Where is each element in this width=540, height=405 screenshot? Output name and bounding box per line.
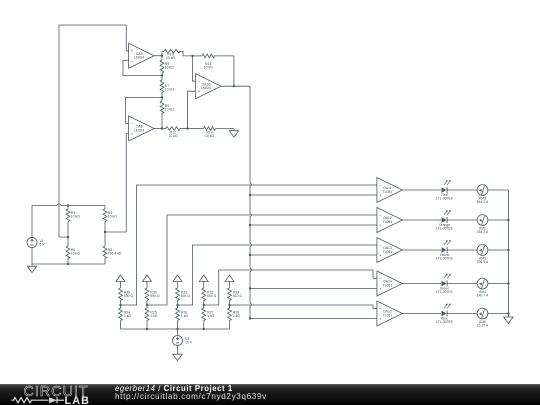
svg-text:5 V: 5 V — [40, 243, 46, 247]
svg-text:LTL-307EE: LTL-307EE — [436, 320, 454, 324]
svg-text:1 kΩ: 1 kΩ — [207, 314, 215, 318]
LED Green LTL-307EE — [442, 274, 451, 287]
op-amp OA10 — [196, 74, 222, 99]
label R4 — [108, 211, 117, 219]
label AM5 — [477, 320, 489, 328]
wire R11/R14 node to OA10 + input — [188, 91, 196, 128]
label R25 — [150, 310, 158, 318]
node ladder rail junction — [203, 328, 205, 330]
label R24 — [124, 310, 132, 318]
ground at V1 — [27, 264, 36, 273]
resistor R24 1 kΩ — [119, 305, 123, 329]
resistor R31 601 Ω — [176, 286, 180, 306]
resistor R7 10k — [160, 76, 164, 98]
svg-text:10 kΩ: 10 kΩ — [71, 215, 80, 219]
node bus junction 3 — [249, 254, 251, 256]
svg-text:10 kΩ: 10 kΩ — [169, 134, 178, 138]
ammeter AM4 — [477, 278, 488, 289]
wire ammeter AM5 to return bus — [488, 313, 509, 315]
svg-text:844.2 A: 844.2 A — [477, 200, 489, 204]
label R33 — [233, 290, 243, 298]
resistor R26 1 kΩ — [176, 305, 180, 329]
svg-text:1 kΩ: 1 kΩ — [150, 314, 158, 318]
resistor R14 10k — [188, 127, 235, 131]
svg-text:1 kΩ: 1 kΩ — [181, 314, 189, 318]
label AM4 — [477, 290, 489, 298]
svg-text:610 Ω: 610 Ω — [233, 294, 243, 298]
wire OA9 output — [154, 55, 162, 57]
node return bus junction — [507, 219, 509, 221]
wire ladder tap 4 to OA14 - input — [204, 270, 377, 305]
svg-text:296.9 A: 296.9 A — [477, 260, 489, 264]
wire OA12 output to LED — [402, 219, 441, 221]
wire bus to OA11 + input — [250, 194, 377, 196]
svg-text:LM324: LM324 — [134, 56, 144, 60]
node R7/R9 junction — [161, 96, 163, 98]
svg-text:10 kΩ: 10 kΩ — [204, 65, 213, 69]
voltage source V3 15V — [173, 329, 193, 354]
wire ladder tap 3 to OA13 - input — [178, 245, 377, 305]
resistor R32 606 Ω — [202, 286, 206, 306]
svg-text:140.7 A: 140.7 A — [477, 294, 489, 298]
op-amp OA15 — [377, 301, 403, 326]
label R30 — [150, 290, 160, 298]
svg-text:LAB: LAB — [65, 395, 91, 405]
node ladder tap 3 — [176, 304, 178, 306]
svg-text:596 Ω: 596 Ω — [150, 294, 160, 298]
resistor R27 1 kΩ — [202, 305, 206, 329]
svg-text:TL081: TL081 — [383, 250, 393, 254]
label R9 — [165, 104, 174, 112]
wire bus to OA13 + input — [250, 254, 377, 256]
ammeter AM1 — [477, 245, 488, 256]
label R27 — [207, 310, 215, 318]
node bus junction 5 — [249, 317, 251, 319]
node ladder tap 2 — [146, 304, 148, 306]
wire OA14 output to LED — [402, 283, 441, 285]
wire LED to ammeter AM5 — [447, 313, 477, 315]
svg-text:LTL-307EE: LTL-307EE — [436, 226, 454, 230]
ammeter AM3 — [477, 185, 488, 196]
resistor R4 10k — [103, 206, 107, 233]
LED Red LTL-307EE — [442, 180, 451, 193]
svg-text:590 Ω: 590 Ω — [124, 294, 134, 298]
label R14 — [205, 131, 214, 139]
voltage source V1 5V — [27, 206, 45, 265]
label AM1 — [477, 257, 489, 265]
resistor R5 10k — [66, 237, 70, 264]
wire LED to ammeter AM1 — [447, 249, 477, 251]
svg-text:10 kΩ: 10 kΩ — [165, 66, 174, 70]
label R31 — [181, 290, 191, 298]
node R4/R6 tap junction — [104, 231, 106, 233]
wire bus to OA14 + input — [250, 288, 377, 290]
svg-text:15 V: 15 V — [185, 341, 193, 345]
LED Blue LTL-307EE — [442, 304, 451, 317]
wire V1 bottom rail — [32, 263, 105, 265]
wire ladder tap 5 to OA15 - input — [230, 305, 377, 309]
svg-text:LTL-307EE: LTL-307EE — [436, 290, 454, 294]
resistor R25 1 kΩ — [145, 305, 149, 329]
node ladder tap 5 — [228, 304, 230, 306]
wire V1 top rail (hop over left loop wire) — [32, 204, 105, 206]
node ladder tap 1 — [119, 304, 121, 306]
node return bus junction — [507, 282, 509, 284]
resistor R33 610 Ω — [228, 286, 232, 306]
node flag above R32 — [199, 275, 208, 286]
wire bus to OA12 + input — [250, 224, 377, 226]
svg-text:LTL-307EE: LTL-307EE — [436, 256, 454, 260]
ammeter AM5 — [477, 308, 488, 319]
ammeter AM2 — [477, 215, 488, 226]
resistor R13 10k — [193, 54, 234, 86]
node OA10 - input junction — [191, 55, 193, 57]
node return bus junction — [507, 249, 509, 251]
node flag above R29 — [116, 275, 125, 286]
svg-text:10 kΩ: 10 kΩ — [166, 56, 175, 60]
footer bar — [0, 384, 540, 405]
op-amp OA14 — [377, 271, 403, 296]
wire OA10 output bus (vertical, with crossover hops) — [250, 86, 252, 318]
op-amp OA11 — [377, 178, 403, 203]
wire ammeter AM2 to return bus — [488, 219, 509, 221]
wire ammeter AM3 to return bus — [488, 189, 509, 191]
op-amp OA8 — [129, 116, 155, 141]
label AM3 — [477, 197, 489, 205]
label R29 — [124, 290, 134, 298]
wire OA8 output — [154, 128, 162, 130]
node flag above R30 — [143, 275, 152, 286]
resistor R11 10k — [162, 127, 188, 131]
label AM2 — [477, 227, 489, 235]
resistor R6 786.4k — [103, 232, 107, 264]
svg-text:TL081: TL081 — [383, 313, 393, 317]
wire LED to ammeter AM2 — [447, 219, 477, 221]
svg-text:TL081: TL081 — [383, 190, 393, 194]
svg-text:10 kΩ: 10 kΩ — [108, 215, 117, 219]
svg-text:16.27 A: 16.27 A — [477, 324, 489, 328]
LED Orange LTL-307EE — [442, 210, 451, 223]
node ladder rail junction — [176, 328, 178, 330]
svg-text:10 kΩ: 10 kΩ — [165, 87, 174, 91]
ground at V3 — [173, 354, 182, 361]
label LED Blue — [436, 316, 454, 324]
wire ladder tap 1 to OA11 - input — [121, 185, 377, 305]
node ladder rail junction — [146, 328, 148, 330]
resistor R28 1 kΩ — [228, 305, 232, 329]
svg-text:TL081: TL081 — [383, 283, 393, 287]
wire LED to ammeter AM3 — [447, 189, 477, 191]
node R11/R14 junction — [186, 127, 188, 129]
resistor R9 10k — [160, 98, 164, 129]
op-amp OA12 — [377, 208, 403, 233]
wire OA10 - input — [193, 56, 196, 81]
label R3 — [71, 211, 80, 219]
label R32 — [207, 290, 217, 298]
wire OA10 output — [221, 85, 250, 87]
wire ammeter AM1 to return bus — [488, 249, 509, 251]
svg-text:454.2 A: 454.2 A — [477, 230, 489, 234]
LED Yellow LTL-307EE — [442, 240, 451, 253]
label R10 — [166, 53, 175, 61]
resistor R3 10k — [66, 206, 70, 238]
svg-text:10 kΩ: 10 kΩ — [165, 108, 174, 112]
wire OA13 output to LED — [402, 249, 441, 251]
node R3/R5 tap junction — [67, 236, 69, 238]
svg-text:10 kΩ: 10 kΩ — [71, 252, 80, 256]
resistor R30 596 Ω — [145, 286, 149, 306]
wire from V1 divider tap to OA9 + input (left loop) — [59, 25, 129, 237]
node bus junction 4 — [249, 287, 251, 289]
label R26 — [181, 310, 189, 318]
svg-text:606 Ω: 606 Ω — [207, 294, 217, 298]
svg-text:1 kΩ: 1 kΩ — [233, 314, 241, 318]
node OA8 output junction — [161, 127, 163, 129]
wire OA11 output to LED — [402, 189, 441, 191]
wire ladder tap 2 to OA12 - input — [147, 215, 377, 305]
ground at R14 — [229, 129, 238, 138]
node bus junction 2 — [249, 224, 251, 226]
node flag above R33 — [225, 275, 234, 286]
label R28 — [233, 310, 241, 318]
op-amp OA9 — [129, 43, 155, 68]
resistor R10 10k — [162, 49, 193, 56]
label LED Green — [436, 286, 454, 294]
wire OA9 - input to R8/R7 node — [123, 61, 162, 76]
wire ladder bottom rail — [121, 328, 230, 330]
node R8/R7 junction — [161, 74, 163, 76]
CircuitLab logo — [0, 384, 110, 405]
svg-text:LM324: LM324 — [201, 86, 211, 90]
wire ammeter AM4 to return bus — [488, 283, 509, 285]
ground at return bus — [504, 314, 513, 324]
label LED Yellow — [436, 253, 454, 261]
node R3 top junction — [67, 204, 69, 206]
label R7 — [165, 84, 174, 92]
svg-text:LM324: LM324 — [134, 128, 144, 132]
node flag above R31 — [173, 275, 182, 286]
wire LED to ammeter AM4 — [447, 283, 477, 285]
resistor R8 10k — [160, 56, 164, 76]
svg-text:LTL-307EE: LTL-307EE — [436, 196, 454, 200]
wire OA8 + input to R4/R6 divider tap — [105, 134, 129, 233]
label R8 — [165, 62, 174, 70]
svg-text:786.4 kΩ: 786.4 kΩ — [108, 252, 122, 256]
node bus junction 1 — [249, 194, 251, 196]
label R6 — [108, 248, 122, 256]
wire bus to OA15 + input — [250, 318, 377, 320]
node R5 bottom junction — [67, 263, 69, 265]
node ladder tap 4 — [203, 304, 205, 306]
label LED Orange — [436, 223, 454, 231]
node return bus junction — [507, 312, 509, 314]
label LED Red — [436, 193, 454, 201]
wire R7/R9 node to OA8 - input — [126, 98, 163, 124]
wire OA15 output to LED — [402, 313, 441, 315]
wire return bus (right vertical) — [507, 190, 509, 314]
svg-text:1 kΩ: 1 kΩ — [124, 314, 132, 318]
node OA10 feedback junction — [233, 85, 235, 87]
resistor R29 590 Ω — [119, 286, 123, 306]
label R5 — [71, 248, 80, 256]
op-amp OA13 — [377, 238, 403, 263]
node OA9 output junction — [161, 55, 163, 57]
label R11 — [169, 131, 178, 139]
svg-text:601 Ω: 601 Ω — [181, 294, 191, 298]
svg-text:TL081: TL081 — [383, 220, 393, 224]
label R13 — [204, 62, 213, 70]
svg-text:10 kΩ: 10 kΩ — [205, 134, 214, 138]
